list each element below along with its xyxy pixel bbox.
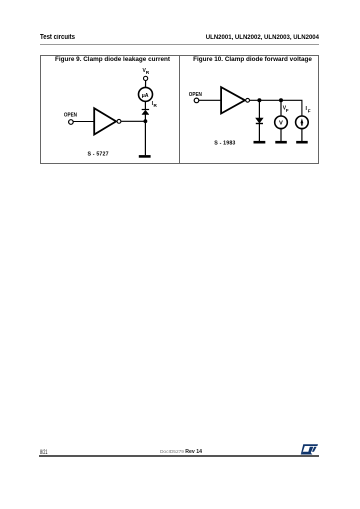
wire node to diode (fig9) xyxy=(144,114,146,121)
footer rule xyxy=(39,455,319,456)
wire voltmeter to ground (fig10) xyxy=(280,128,282,141)
wire diode to ground (fig10) xyxy=(258,124,260,142)
svg-text:F: F xyxy=(286,108,289,113)
svg-text:S - 1983: S - 1983 xyxy=(214,140,235,146)
svg-text:V: V xyxy=(279,121,283,127)
figure table divider xyxy=(179,55,180,164)
wire node to ground (fig9) xyxy=(144,121,146,155)
svg-text:S - 5727: S - 5727 xyxy=(88,152,109,158)
svg-text:R: R xyxy=(146,70,150,75)
caption Figure 9 xyxy=(43,56,183,63)
junction node (fig9) xyxy=(144,119,148,123)
wire node B to voltmeter (fig10) xyxy=(280,100,282,116)
ground (current source branch fig10) xyxy=(296,141,308,144)
svg-text:R: R xyxy=(154,103,158,108)
footer doc id xyxy=(140,449,222,455)
header left: Test circuits xyxy=(40,34,75,41)
wire input to inverter (fig10) xyxy=(199,99,221,101)
wire diode to meter (fig9) xyxy=(144,102,146,110)
clamp diode (fig10, cathode down) xyxy=(256,118,263,123)
wire bubble to right corner (fig10) xyxy=(249,100,302,116)
microammeter (fig9) xyxy=(139,87,153,101)
VR terminal (fig9) xyxy=(144,76,148,80)
ground (diode branch fig10) xyxy=(254,141,266,144)
wire node A to diode (fig10) xyxy=(258,100,260,118)
junction node A (fig10) xyxy=(257,98,261,102)
ground (voltmeter branch fig10) xyxy=(275,141,287,144)
input terminal (fig10) xyxy=(194,98,199,103)
inverter U1 (fig9) xyxy=(94,108,116,134)
wire current source to ground (fig10) xyxy=(301,128,303,141)
inverter output bubble (fig10) xyxy=(246,98,250,102)
svg-text:F: F xyxy=(308,108,311,113)
svg-text:OPEN: OPEN xyxy=(64,113,77,119)
wire bubble to node (fig9) xyxy=(121,120,145,122)
figure table frame xyxy=(40,55,319,164)
header right: part numbers xyxy=(131,34,320,41)
clamp diode (fig9, cathode up) xyxy=(142,110,149,114)
ST logo xyxy=(301,444,318,454)
junction node B (fig10) xyxy=(279,98,283,102)
input terminal (fig9) xyxy=(69,120,74,125)
wire meter to VR terminal (fig9) xyxy=(145,81,147,88)
header rule xyxy=(40,44,320,45)
svg-text:μA: μA xyxy=(142,93,149,99)
svg-text:OPEN: OPEN xyxy=(189,92,202,98)
wire input to inverter (fig9) xyxy=(73,121,94,123)
inverter output bubble (fig9) xyxy=(117,119,121,123)
footer page number xyxy=(40,449,47,456)
voltmeter (fig10) xyxy=(275,116,288,129)
inverter U2 (fig10) xyxy=(221,87,245,113)
current source (fig10) xyxy=(296,116,309,129)
ground (fig9) xyxy=(139,155,151,158)
caption Figure 10 xyxy=(183,56,323,63)
